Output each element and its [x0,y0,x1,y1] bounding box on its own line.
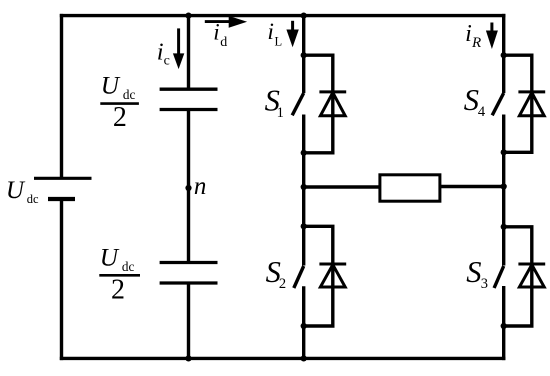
svg-text:S: S [464,83,479,117]
wire left leg S1-to-midnode segment [302,115,305,188]
svg-text:dc: dc [123,87,136,102]
node left leg / D2 branch top junction [301,223,307,229]
wire left leg S2-to-bottom segment [302,286,305,358]
svg-text:U: U [101,72,121,100]
battery U_dc negative plate [48,197,75,201]
current arrow i_L [286,21,298,48]
wire left bridge leg top segment [302,16,305,93]
node bottom rail / left leg junction [301,355,307,361]
node right leg / D3 branch top junction [501,224,507,230]
svg-text:3: 3 [481,276,488,292]
switch S1 blade [292,93,304,115]
label S3 [466,255,488,292]
wire load right segment [440,185,504,188]
wire left rail lower segment [60,199,63,360]
label i_R [465,21,481,51]
switch S2 blade [294,266,304,288]
svg-text:i: i [465,21,472,47]
label S1 [265,83,284,121]
node right leg mid output junction [501,183,507,189]
svg-text:dc: dc [122,259,135,274]
label U_dc/2 (C1) [100,72,139,133]
node right leg / D3 branch bottom junction [501,323,507,329]
node right leg / D4 branch top junction [501,52,507,58]
svg-text:i: i [213,20,219,45]
svg-text:c: c [164,54,170,69]
capacitor C2 upper plate [160,261,218,264]
capacitor C1 upper plate [160,88,218,91]
wire D2 branch [304,226,333,326]
node left leg / D1 branch top junction [301,52,307,58]
svg-text:L: L [275,35,283,49]
battery U_dc positive plate [34,177,92,180]
diode D3 [518,264,545,287]
svg-text:n: n [194,173,207,200]
svg-text:1: 1 [277,105,284,121]
label S2 [266,255,287,292]
resistor load box [380,175,440,201]
svg-text:U: U [6,177,26,204]
svg-text:R: R [471,35,481,51]
diode D4 [518,92,545,116]
svg-text:2: 2 [279,276,286,292]
label U_dc (source) [6,177,39,206]
wire right leg S3-to-bottom segment [502,286,505,360]
current arrow i_c [173,28,184,69]
svg-text:dc: dc [27,192,39,206]
svg-text:S: S [466,255,481,289]
node top rail / capacitor branch junction [185,13,191,19]
node left leg / D1 branch bottom junction [301,150,307,156]
label i_L [267,19,282,48]
wire top rail [60,14,506,17]
switch S3 blade [494,266,504,288]
svg-text:U: U [100,244,120,272]
svg-text:2: 2 [111,275,125,306]
wire load left segment [304,185,380,188]
wire D4 branch [504,55,532,152]
label U_dc/2 (C2) [99,244,140,306]
capacitor C2 lower plate [160,281,218,284]
capacitor C1 lower plate [160,108,218,111]
switch S4 blade [492,93,504,115]
label i_c [157,39,170,69]
node n junction dot [185,185,191,191]
wire right leg S4-to-midnode segment [502,115,505,187]
label i_d [213,20,227,50]
wire right bridge leg top segment [502,14,505,93]
wire capacitor branch middle segment [187,110,190,263]
current arrow i_d [205,16,247,28]
wire capacitor branch top segment [187,16,190,90]
wire capacitor branch bottom segment [187,283,190,358]
wire D1 branch [304,55,333,153]
wire D3 branch [504,227,532,326]
diode D2 [319,264,346,287]
svg-text:4: 4 [478,104,486,120]
node left leg mid output junction [301,184,307,190]
wire left leg midnode-to-S2 segment [302,187,305,266]
label S4 [464,83,486,120]
node right leg / D4 branch bottom junction [501,149,507,155]
node left leg / D2 branch bottom junction [301,323,307,329]
wire bottom rail [60,357,506,360]
svg-text:d: d [220,35,227,50]
svg-text:2: 2 [113,102,127,133]
wire right leg midnode-to-S3 segment [502,187,505,266]
wire left rail upper segment [60,14,63,178]
node top rail / left leg junction [301,13,307,19]
svg-text:i: i [267,19,274,45]
node bottom rail / capacitor branch junction [185,355,191,361]
current arrow i_R [486,23,498,50]
diode D1 [319,92,346,116]
